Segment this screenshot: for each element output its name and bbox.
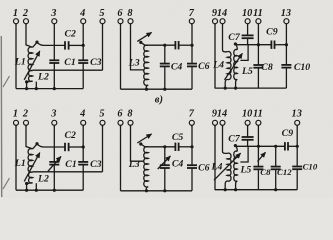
node L4 rail junction — [224, 87, 227, 90]
wire L2 bottom to rail — [27, 81, 33, 88]
wire junction to C2 left — [37, 43, 64, 46]
label L4 (b) — [211, 162, 223, 173]
node C4 rail junction (b) — [163, 189, 166, 192]
wire pin6 down to rail (b) — [120, 125, 122, 191]
wire C7 bottom leg (b) — [247, 140, 249, 146]
pin 5 (bottom row terminal) — [99, 108, 105, 126]
inductor L1 (b) — [28, 149, 33, 173]
trimmer arrow through L4 L5 (b) — [214, 153, 241, 180]
capacitor C5 — [175, 143, 178, 151]
wire pin1 to bottom rail — [15, 24, 17, 89]
node L2 bottom junction (b) — [25, 182, 28, 185]
node junction at L1 top (b) — [35, 142, 38, 145]
capacitor C6 — [187, 64, 197, 67]
node C1 bottom rail junction — [53, 87, 56, 90]
wire L3 top to series cap — [144, 44, 175, 46]
label C9 (b) — [282, 128, 294, 139]
wire pin8 to L3 tap (b) — [131, 125, 145, 161]
wire pin2 down to L1 top (b) — [26, 125, 33, 149]
wire pin11 down to C8 (b) — [257, 125, 259, 166]
label C8 (b) — [260, 167, 271, 177]
label figure part (v) — [155, 94, 163, 105]
wire bottom rail (circuit 5) — [121, 190, 193, 192]
label C5 — [172, 132, 184, 143]
wire pin7 down to C6 — [191, 24, 193, 64]
capacitor C7 (b) — [242, 137, 254, 140]
node C12 junction (b) — [274, 145, 277, 148]
inductor L4 — [227, 52, 231, 80]
node junction at L1 top — [35, 41, 38, 44]
node C4 top junction (b) — [163, 145, 166, 148]
node L2 rail junction (b) — [25, 189, 28, 192]
pin 14 (top row terminal) — [217, 8, 227, 25]
wire L3 top to dot — [141, 42, 145, 45]
pin 1 (top row terminal) — [13, 8, 19, 25]
wire stub to rail near L2 (b) — [35, 183, 37, 190]
label C1 (b) — [65, 159, 76, 170]
capacitor C8 — [253, 65, 263, 68]
label C6 — [198, 61, 210, 72]
label L1 (b) — [14, 158, 26, 169]
label C10 (b) — [303, 161, 318, 171]
wire pin6 down to rail — [120, 24, 122, 90]
wire pin10 down to C7 (b) — [247, 125, 249, 136]
node L3 rail junction (b) — [145, 189, 148, 192]
wire C4 to rail (b) — [164, 168, 166, 190]
wire output node to pin11 line — [235, 44, 271, 46]
wire bottom rail (circuit 4) — [16, 189, 83, 191]
wire pin10 down to C7 — [247, 24, 249, 35]
node L5 top junction (b) — [234, 144, 237, 147]
node L5 rail junction (b) — [234, 188, 237, 191]
wire pin9 down to rail (b) — [214, 125, 216, 189]
capacitor C10 — [281, 65, 291, 68]
pin 6 (top row terminal) — [117, 8, 123, 25]
wire pin2 down to L1 top — [26, 24, 33, 48]
wire pin3 down to C1 — [53, 24, 55, 60]
wire C9 to pin13 line — [275, 44, 286, 46]
wire C9 to pin13 line (b) — [289, 145, 298, 147]
label C9 — [266, 27, 278, 38]
wire bottom rail (circuit 3 top) — [215, 87, 287, 89]
capacitor C4 variable (b) — [160, 165, 170, 168]
wire C1 to bottom rail (b) — [53, 165, 55, 190]
pin 10 (top row terminal) — [242, 8, 252, 25]
pin 13 (top row terminal) — [281, 8, 291, 25]
pin 11 (top row terminal) — [253, 8, 263, 25]
wire C4 line down — [164, 45, 166, 63]
wire C1 to bottom rail — [53, 63, 55, 88]
node C1 bottom rail junction (b) — [53, 189, 56, 192]
capacitor C6 (b) — [187, 165, 197, 168]
wire L3 top to dot (b) — [141, 144, 145, 147]
pin 14 (bottom row terminal) — [217, 108, 227, 126]
pin 7 (top row terminal) — [189, 8, 195, 25]
wire C10 to rail (b) — [296, 170, 298, 190]
node junction C2/pin4 — [82, 44, 85, 47]
capacitor C3 (b) — [78, 162, 88, 165]
pin 4 (bottom row terminal) — [79, 108, 86, 126]
label L3 — [128, 57, 140, 68]
wire C10 to rail — [285, 68, 287, 88]
label C12 — [277, 167, 292, 177]
label C7 — [228, 32, 241, 43]
node L3 rail junction — [145, 88, 148, 91]
node L4 rail junction (b) — [224, 188, 227, 191]
wire tap L1/L2 to pin5 line — [33, 69, 103, 71]
label C4 (b) — [172, 158, 184, 169]
pin 7 (bottom row terminal) — [189, 108, 195, 126]
wire L2 bottom to rail (b) — [27, 183, 33, 190]
label C6 (b) — [198, 162, 210, 173]
wire L4 bottom to rail (b) — [225, 181, 227, 190]
wire pin8 to L3 tap — [131, 24, 145, 70]
wire L3 bottom to rail (b) — [146, 187, 148, 191]
capacitor C12 — [271, 167, 281, 170]
label C8 — [261, 62, 273, 73]
capacitor C1 variable (b) — [49, 162, 59, 165]
pin 8 (bottom row terminal) — [127, 108, 133, 126]
wire C6 to rail — [191, 67, 193, 89]
pin 11 (bottom row terminal) — [253, 108, 263, 126]
wire C3 to bottom rail — [82, 63, 84, 88]
wire C12 to rail — [275, 170, 277, 190]
wire C4 to rail — [164, 67, 166, 89]
pin 13 (bottom row terminal) — [292, 108, 302, 126]
node stub rail junction — [35, 87, 38, 90]
inductor L3 — [144, 45, 148, 85]
capacitor C9 — [271, 41, 274, 49]
wire L5 top stub (b) — [236, 146, 238, 151]
capacitor C2 — [65, 41, 69, 49]
wire L3 bottom to rail — [146, 85, 148, 89]
wire bottom rail (circuit 2 top) — [121, 88, 193, 90]
capacitor C10 (b) — [292, 167, 302, 170]
wire C8 to rail — [257, 68, 259, 88]
wire bottom rail (circuit 6) — [215, 189, 298, 191]
pin 8 (top row terminal) — [127, 8, 133, 25]
wire pin14 down to L4 top (b) — [223, 125, 228, 153]
label C1 — [64, 57, 75, 68]
node C12 rail junction — [274, 188, 277, 191]
node C4 top junction — [163, 44, 166, 47]
capacitor C9 (b) — [285, 142, 288, 150]
node pin7 wire junction — [190, 44, 193, 47]
wire C6 to rail (b) — [191, 168, 193, 190]
wire L5 bottom to rail (b) — [236, 181, 238, 190]
node L2 bottom junction — [25, 80, 28, 83]
wire pin11 down to C8 — [257, 24, 259, 65]
wire stub to rail near L2 — [35, 82, 37, 89]
capacitor C8 variable (b) — [253, 167, 263, 170]
node pin11 junction — [257, 43, 260, 46]
inductor L1 — [28, 47, 33, 71]
wire pin13 down to C10 — [285, 24, 287, 65]
inductor L5 (b) — [234, 151, 238, 181]
trimmer arrow above L3 — [137, 32, 151, 41]
trimmer arrow above L3 (b) — [137, 134, 151, 143]
wire L5 side tap box — [240, 45, 248, 61]
label L5 (b) — [239, 165, 251, 176]
label C2 — [64, 28, 76, 39]
wire L4 bottom to rail — [225, 79, 227, 88]
pin 10 (bottom row terminal) — [242, 108, 252, 126]
wire tap to pin5 line (b) — [33, 171, 103, 173]
wire pin1 to bottom rail (b) — [15, 125, 17, 190]
trimmer arrow through C4 — [158, 156, 171, 169]
wire C2 right to pin4 line — [69, 44, 83, 46]
trimmer arrow through L4 L5 — [225, 53, 243, 80]
label L2 (b) — [37, 173, 49, 184]
wire bottom rail (circuit 1 top) — [16, 88, 83, 90]
label L3 (b) — [128, 159, 140, 170]
wire C2 right to pin4 line (b) — [69, 146, 83, 148]
wire pin3 down to C1 (b) — [53, 125, 55, 161]
node junction C2/pin4 (b) — [82, 145, 85, 148]
trimmer arrow through C1 — [48, 156, 61, 171]
wire L5 bottom to rail — [236, 79, 238, 88]
pin 3 (top row terminal) — [50, 8, 57, 25]
node L5 rail junction — [234, 87, 237, 90]
trimmer arrow through L1 L2 (b) — [24, 153, 40, 182]
wire C4 line down (b) — [164, 147, 166, 165]
wire stub L1 top to junction dot — [33, 42, 37, 47]
node L5 top junction — [234, 42, 237, 45]
label C7 (b) — [228, 134, 241, 145]
label L1 — [14, 56, 26, 67]
inductor L2 (b) — [29, 172, 33, 183]
capacitor C1 — [49, 60, 59, 63]
wire pin9 down to rail — [214, 24, 216, 88]
label C3 — [90, 57, 102, 68]
wire C8 to rail (b) — [257, 170, 259, 190]
wire L5 side tap box (b) — [240, 146, 248, 162]
node pin13 junction — [285, 43, 288, 46]
wire pin4 down to C3 (b) — [82, 125, 84, 161]
pin 4 (top row terminal) — [79, 8, 86, 25]
wire pin13 down to C10 (b) — [296, 125, 298, 166]
wire C12 line down — [275, 146, 277, 166]
capacitor C3 — [78, 60, 88, 63]
node L2 rail junction — [25, 87, 28, 90]
label C3 (b) — [90, 159, 102, 170]
node L3 top junction dot (b) — [139, 142, 142, 145]
wire series cap to pin7 line — [179, 44, 192, 46]
label C10 — [294, 62, 310, 73]
inductor L5 — [234, 49, 238, 79]
trimmer arrow through C8 — [258, 152, 266, 161]
pin 2 (top row terminal) — [22, 8, 29, 25]
capacitor C7 — [242, 35, 254, 38]
inductor L3 (b) — [144, 147, 148, 187]
label C4 — [171, 62, 183, 73]
wire stub L1 top to junction (b) — [33, 144, 37, 149]
label L4 — [212, 60, 224, 71]
pin 5 (top row terminal) — [99, 8, 105, 25]
node pin7 wire junction (b) — [190, 145, 193, 148]
label L5 — [241, 66, 253, 77]
trimmer arrow through L1 L2 — [24, 51, 40, 80]
pin 3 (bottom row terminal) — [50, 108, 57, 126]
wire output node to C9 — [235, 145, 284, 147]
wire pin5 down to tap wire — [102, 24, 104, 70]
node L3 top junction dot — [139, 41, 142, 44]
node pin11 junction (b) — [257, 145, 260, 148]
pin 6 (bottom row terminal) — [117, 108, 123, 126]
wire pin14 down to L4 top — [223, 24, 228, 52]
capacitor series (unlabeled, circuit 2 top) — [175, 41, 178, 49]
pin 2 (bottom row terminal) — [22, 108, 29, 126]
inductor L4 (b) — [227, 153, 231, 181]
wire L3 top to C5 — [144, 146, 175, 148]
pin 9 (bottom row terminal) — [212, 108, 218, 126]
capacitor C2 (b) — [65, 143, 69, 151]
wire pin4 down to C3 — [82, 24, 84, 60]
scan edge artifact — [1, 36, 9, 197]
node stub rail junction (b) — [35, 189, 38, 192]
wire C3 to bottom rail (b) — [82, 165, 84, 190]
node C4 rail junction — [163, 88, 166, 91]
capacitor C4 — [160, 64, 170, 67]
wire pin7 down to C6 (b) — [191, 125, 193, 165]
pin 1 (bottom row terminal) — [13, 108, 19, 126]
wire pin5 down to tap (b) — [102, 125, 104, 172]
label L2 — [37, 72, 49, 83]
wire C7 bottom leg — [247, 39, 249, 45]
wire C5 to pin7 line — [179, 146, 192, 148]
wire L5 top stub — [236, 44, 238, 49]
label C2 (b) — [64, 130, 76, 141]
inductor L2 — [29, 71, 33, 82]
wire junction to C2 left (b) — [37, 144, 64, 147]
pin 9 (top row terminal) — [212, 8, 218, 25]
node pin13 junction (b) — [296, 145, 299, 148]
